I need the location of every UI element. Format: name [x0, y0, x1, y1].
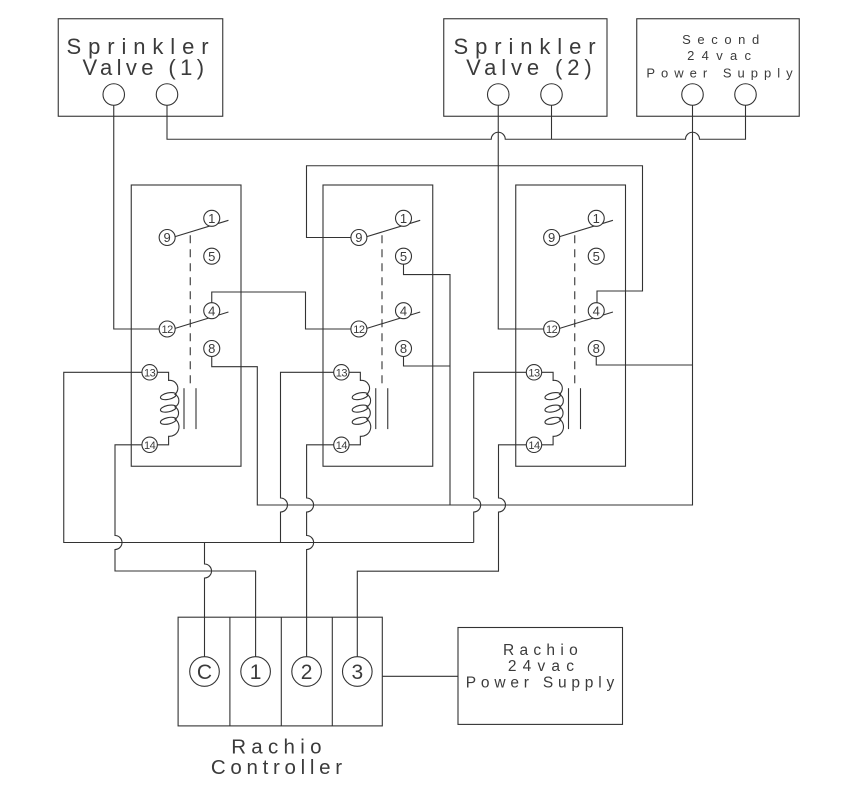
svg-text:12: 12	[162, 324, 174, 336]
svg-text:14: 14	[528, 440, 540, 452]
svg-text:1: 1	[400, 211, 407, 226]
svg-text:Controller: Controller	[211, 756, 347, 779]
svg-text:13: 13	[528, 367, 540, 379]
svg-text:1: 1	[593, 211, 600, 226]
svg-text:1: 1	[250, 661, 262, 684]
svg-text:14: 14	[336, 440, 348, 452]
svg-text:5: 5	[400, 249, 407, 264]
svg-text:Rachio: Rachio	[503, 642, 583, 659]
svg-text:5: 5	[208, 249, 215, 264]
svg-text:9: 9	[355, 230, 362, 245]
svg-text:12: 12	[546, 324, 558, 336]
svg-text:2: 2	[301, 661, 313, 684]
svg-text:Second: Second	[682, 32, 766, 47]
svg-text:8: 8	[400, 341, 407, 356]
svg-text:4: 4	[400, 303, 407, 318]
svg-text:5: 5	[593, 249, 600, 264]
svg-text:C: C	[197, 661, 212, 684]
svg-text:24vac: 24vac	[508, 658, 580, 675]
svg-text:8: 8	[208, 341, 215, 356]
svg-text:Valve (1): Valve (1)	[83, 55, 209, 80]
svg-text:12: 12	[353, 324, 365, 336]
svg-text:Power Supply: Power Supply	[646, 66, 798, 81]
svg-text:9: 9	[548, 230, 555, 245]
svg-text:Valve (2): Valve (2)	[466, 55, 597, 80]
svg-text:Power Supply: Power Supply	[466, 675, 619, 692]
svg-text:3: 3	[351, 661, 363, 684]
svg-text:8: 8	[593, 341, 600, 356]
svg-text:9: 9	[164, 230, 171, 245]
svg-text:24vac: 24vac	[687, 48, 758, 63]
svg-text:13: 13	[336, 367, 348, 379]
svg-text:1: 1	[208, 211, 215, 226]
svg-text:4: 4	[593, 303, 600, 318]
svg-text:14: 14	[144, 440, 156, 452]
svg-text:4: 4	[208, 303, 215, 318]
svg-text:13: 13	[144, 367, 156, 379]
